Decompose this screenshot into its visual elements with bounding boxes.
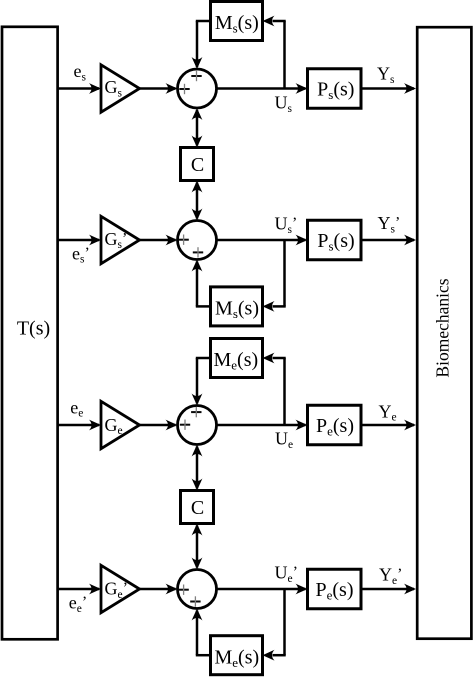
svg-text:Ps​(s): Ps​(s): [317, 230, 354, 253]
svg-text:Ms​(s): Ms​(s): [215, 298, 259, 321]
svg-text:Ms​(s): Ms​(s): [215, 12, 259, 35]
svg-text:Pe​(s): Pe​(s): [315, 579, 353, 602]
svg-text:C: C: [191, 154, 204, 176]
svg-text:Biomechanics: Biomechanics: [433, 278, 453, 377]
svg-text:C: C: [191, 497, 204, 519]
svg-text:Ps​(s): Ps​(s): [317, 79, 354, 102]
svg-text:Pe​(s): Pe​(s): [316, 415, 354, 438]
svg-text:T(s): T(s): [17, 318, 50, 340]
